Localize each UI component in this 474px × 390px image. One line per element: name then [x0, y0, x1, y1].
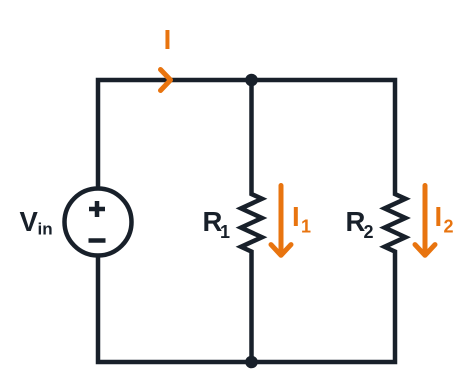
svg-text:I: I — [435, 201, 443, 232]
svg-text:V: V — [20, 206, 39, 237]
current I1 arrow — [271, 186, 291, 256]
plus sign — [89, 201, 105, 217]
svg-text:2: 2 — [444, 217, 454, 237]
node B (bottom junction) — [245, 356, 258, 369]
minus sign — [89, 238, 106, 243]
svg-text:1: 1 — [220, 222, 230, 242]
svg-text:R: R — [346, 206, 366, 237]
wire middle branch with resistor R1 zigzag — [241, 80, 262, 362]
voltage source V_in — [65, 189, 132, 256]
svg-text:1: 1 — [301, 217, 311, 237]
svg-text:I: I — [292, 201, 300, 232]
node A (top junction) — [245, 74, 258, 87]
svg-text:I: I — [164, 24, 172, 55]
svg-text:2: 2 — [364, 222, 374, 242]
current I2 arrow — [415, 186, 435, 256]
svg-text:in: in — [38, 220, 53, 239]
current I arrow (chevron on top wire) — [161, 70, 171, 91]
wire outer loop with resistor R2 zigzag on right branch — [98, 80, 406, 362]
